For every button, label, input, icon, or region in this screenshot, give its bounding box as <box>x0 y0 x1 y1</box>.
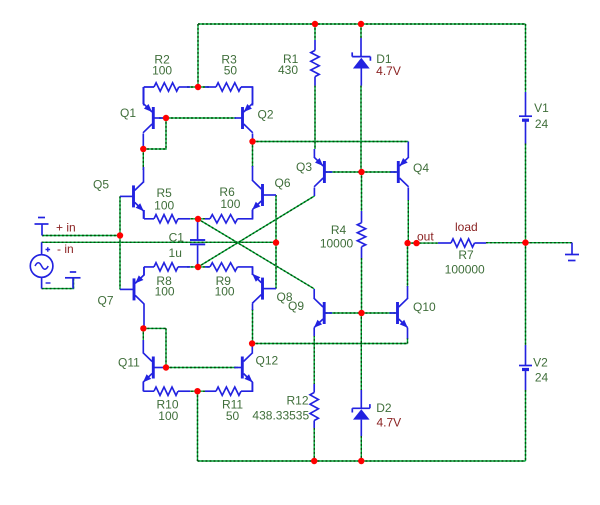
wire Q2 collector drop to Q6 <box>252 142 254 168</box>
svg-text:+ in: + in <box>56 221 76 235</box>
svg-text:out: out <box>417 230 434 244</box>
label V1 <box>534 101 549 131</box>
label Q11 <box>118 356 140 370</box>
junction Q11 base <box>163 364 169 370</box>
wire V1 bottom feed <box>525 144 527 243</box>
svg-text:Q12: Q12 <box>256 354 279 368</box>
wire R10-R11 junction <box>187 390 209 392</box>
wire Q10 collector riser <box>407 243 409 287</box>
svg-text:100: 100 <box>220 197 240 211</box>
wire V2 top feed <box>525 243 527 345</box>
junction Q3/Q4 bases <box>358 169 364 175</box>
resistor R12 <box>310 384 318 428</box>
wire R12 bottom lead <box>313 428 315 461</box>
battery V2 <box>519 345 532 390</box>
label R11 <box>222 398 243 424</box>
wire V2 bottom feed <box>525 390 527 461</box>
junction Q1/Q5 collectors <box>140 146 146 152</box>
svg-text:D2: D2 <box>376 401 392 415</box>
label D2 <box>376 401 392 415</box>
wire R7 to supply mid <box>486 242 572 244</box>
svg-text:Q2: Q2 <box>258 108 274 122</box>
wire R1 top lead <box>314 24 316 40</box>
resistor R9 <box>205 263 253 275</box>
wire bottom rail <box>198 460 526 462</box>
svg-text:100: 100 <box>152 64 172 78</box>
wire R2-R3 junction <box>187 86 209 88</box>
label R8 <box>155 274 175 299</box>
wire D2 top lead <box>360 313 362 390</box>
junction -in bases <box>273 239 279 245</box>
label D2 value <box>376 416 401 430</box>
svg-text:100000: 100000 <box>445 263 485 277</box>
svg-text:Q4: Q4 <box>413 161 429 175</box>
svg-text:4.7V: 4.7V <box>376 64 401 78</box>
wire Q6-Q8 base column <box>275 195 277 289</box>
svg-text:V1: V1 <box>534 101 549 115</box>
label Q2 <box>258 108 274 122</box>
label Q9 <box>288 299 304 313</box>
wire R5-R6 junction <box>187 218 209 220</box>
zener diode D1 <box>352 38 370 86</box>
svg-text:10000: 10000 <box>320 237 354 251</box>
svg-text:50: 50 <box>224 64 238 78</box>
wire rail drop to R2/R3 node <box>197 24 199 87</box>
label Q7 <box>98 294 114 308</box>
label net +in <box>56 221 76 235</box>
label Q3 <box>296 160 312 174</box>
wire R4 top lead <box>361 172 363 211</box>
svg-text:100: 100 <box>215 285 235 299</box>
svg-text:Q10: Q10 <box>413 300 436 314</box>
junction out b <box>413 240 419 246</box>
junction Q9/Q10 bases <box>358 310 364 316</box>
wire diagonal R5/R6 node to Q9 collector <box>198 219 314 289</box>
label Q1 <box>120 106 136 120</box>
label Q5 <box>93 178 109 192</box>
junction Q7/Q11 collectors <box>140 325 146 331</box>
label V2 <box>533 356 548 385</box>
label R9 <box>215 274 235 299</box>
label D1 <box>376 52 392 66</box>
label R3 <box>221 53 237 78</box>
transistor Q6 <box>252 166 276 219</box>
svg-text:Q6: Q6 <box>275 176 291 190</box>
label Q4 <box>413 161 429 175</box>
junction rail-R12 <box>311 458 317 464</box>
svg-text:24: 24 <box>535 371 549 385</box>
label Q12 <box>256 354 279 368</box>
svg-text:Q5: Q5 <box>93 178 109 192</box>
svg-text:V2: V2 <box>533 356 548 370</box>
svg-text:100: 100 <box>154 199 174 213</box>
svg-text:C1: C1 <box>169 231 185 245</box>
wire Q11 tie <box>143 328 166 367</box>
resistor R10 <box>143 382 190 395</box>
resistor R6 <box>205 210 253 223</box>
svg-text:- in: - in <box>57 242 74 256</box>
battery V1 <box>519 92 532 144</box>
svg-text:Q11: Q11 <box>118 356 140 370</box>
wire Q8 collector drop <box>252 309 254 344</box>
junction out a <box>404 240 410 246</box>
resistor R8 <box>144 263 190 275</box>
transistor Q5 <box>120 167 144 219</box>
junction R2/R3 node <box>195 84 201 90</box>
transistor Q1 <box>143 87 164 149</box>
wire Q11 collector riser <box>142 328 144 341</box>
label R1 <box>278 52 299 77</box>
svg-text:Q1: Q1 <box>120 106 136 120</box>
svg-text:4.7V: 4.7V <box>376 416 401 430</box>
svg-text:438.33535: 438.33535 <box>252 409 309 423</box>
ground +in <box>35 218 49 236</box>
wire R12 top from Q9 emitter <box>313 335 315 384</box>
resistor R1 <box>311 40 319 86</box>
resistor R3 <box>205 83 253 106</box>
AC source <box>30 242 53 288</box>
transistor Q7 <box>120 267 144 327</box>
resistor R5 <box>144 210 190 223</box>
svg-text:100: 100 <box>158 409 178 423</box>
wire AC source bottom <box>42 279 74 289</box>
wire Q5 collector riser <box>142 149 144 170</box>
wire Q5-Q7 base column <box>119 196 121 289</box>
label C1 <box>169 231 185 261</box>
wire D1 top lead <box>360 24 362 38</box>
wire Q1 base-collector tie <box>143 118 166 149</box>
capacitor C1 <box>190 219 205 267</box>
wire D1 bottom to base node <box>360 86 362 172</box>
svg-text:R4: R4 <box>331 223 347 237</box>
label R4 <box>320 223 354 251</box>
wire Q10 emitter to Q12 collector <box>252 338 407 344</box>
svg-text:R12: R12 <box>286 394 308 408</box>
transistor Q10 <box>390 286 408 339</box>
label Q8 <box>277 290 293 304</box>
svg-text:Q3: Q3 <box>296 160 312 174</box>
transistor Q12 <box>234 345 252 392</box>
junction Q2 collector <box>249 138 255 144</box>
resistor R2 <box>144 83 190 106</box>
transistor Q8 <box>252 267 276 310</box>
resistor R4 <box>357 211 365 258</box>
ground AC source <box>65 272 81 289</box>
svg-text:Q9: Q9 <box>288 299 304 313</box>
wire R4 bottom lead <box>361 258 363 313</box>
label R5 <box>154 186 174 213</box>
wire V1 top feed <box>525 24 527 92</box>
wire R8-R9 junction <box>187 266 209 268</box>
wire diagonal R8/R9 node to Q3 collector <box>198 196 314 267</box>
svg-text:50: 50 <box>226 409 240 423</box>
transistor Q2 <box>235 87 253 142</box>
resistor R11 <box>205 382 253 395</box>
svg-text:24: 24 <box>535 117 549 131</box>
junction +in bases <box>117 232 123 238</box>
wire -in to Q6/Q8 base column <box>42 241 276 243</box>
wire Q2 collector to Q4 emitter <box>253 141 409 143</box>
wire Q1-Q2 base <box>159 117 236 119</box>
label R12 <box>252 394 309 423</box>
wire +in to base column <box>42 235 120 237</box>
resistor R7 <box>438 239 486 247</box>
wire bottom rail riser to R10/R11 <box>197 391 199 461</box>
svg-text:R7: R7 <box>458 248 474 262</box>
label D1 value <box>376 64 401 78</box>
transistor Q4 <box>390 142 408 201</box>
wire Q9-Q10 base <box>326 312 396 314</box>
transistor Q9 <box>314 289 332 336</box>
label R2 <box>152 53 172 78</box>
label net load <box>455 220 478 234</box>
wire Q4 collector drop <box>407 199 409 243</box>
label net -in <box>57 242 74 256</box>
transistor Q3 <box>314 149 332 196</box>
svg-text:Q7: Q7 <box>98 294 114 308</box>
junction Q12 collector <box>249 340 255 346</box>
junction rail-R1 <box>312 21 318 27</box>
svg-text:load: load <box>455 220 478 234</box>
junction supply mid <box>522 239 528 245</box>
junction rail-D1 <box>358 21 364 27</box>
wire Q3-Q4 base <box>326 171 397 173</box>
svg-text:100: 100 <box>155 285 175 299</box>
junction Q1 base <box>163 115 169 121</box>
junction rail-D2 <box>358 458 364 464</box>
label R10 <box>156 398 178 424</box>
zener diode D2 <box>352 390 370 436</box>
junction R8/R9 node <box>195 264 201 270</box>
label Q6 <box>275 176 291 190</box>
junction R5/R6 node <box>195 216 201 222</box>
label Q10 <box>413 300 436 314</box>
label R6 <box>219 185 240 211</box>
label net out <box>417 230 434 244</box>
wire top rail <box>198 23 526 25</box>
ground right <box>565 243 579 261</box>
svg-text:1u: 1u <box>169 246 182 260</box>
wire out to R7 <box>408 242 439 244</box>
wire Q11-Q12 base <box>166 367 238 369</box>
svg-text:430: 430 <box>278 63 298 77</box>
transistor Q11 <box>143 340 164 391</box>
label R7 <box>445 248 485 277</box>
junction R10/R11 node <box>194 388 200 394</box>
wire D2 bottom lead <box>360 436 362 461</box>
wire R1 bottom to Q3 emitter <box>314 86 316 149</box>
